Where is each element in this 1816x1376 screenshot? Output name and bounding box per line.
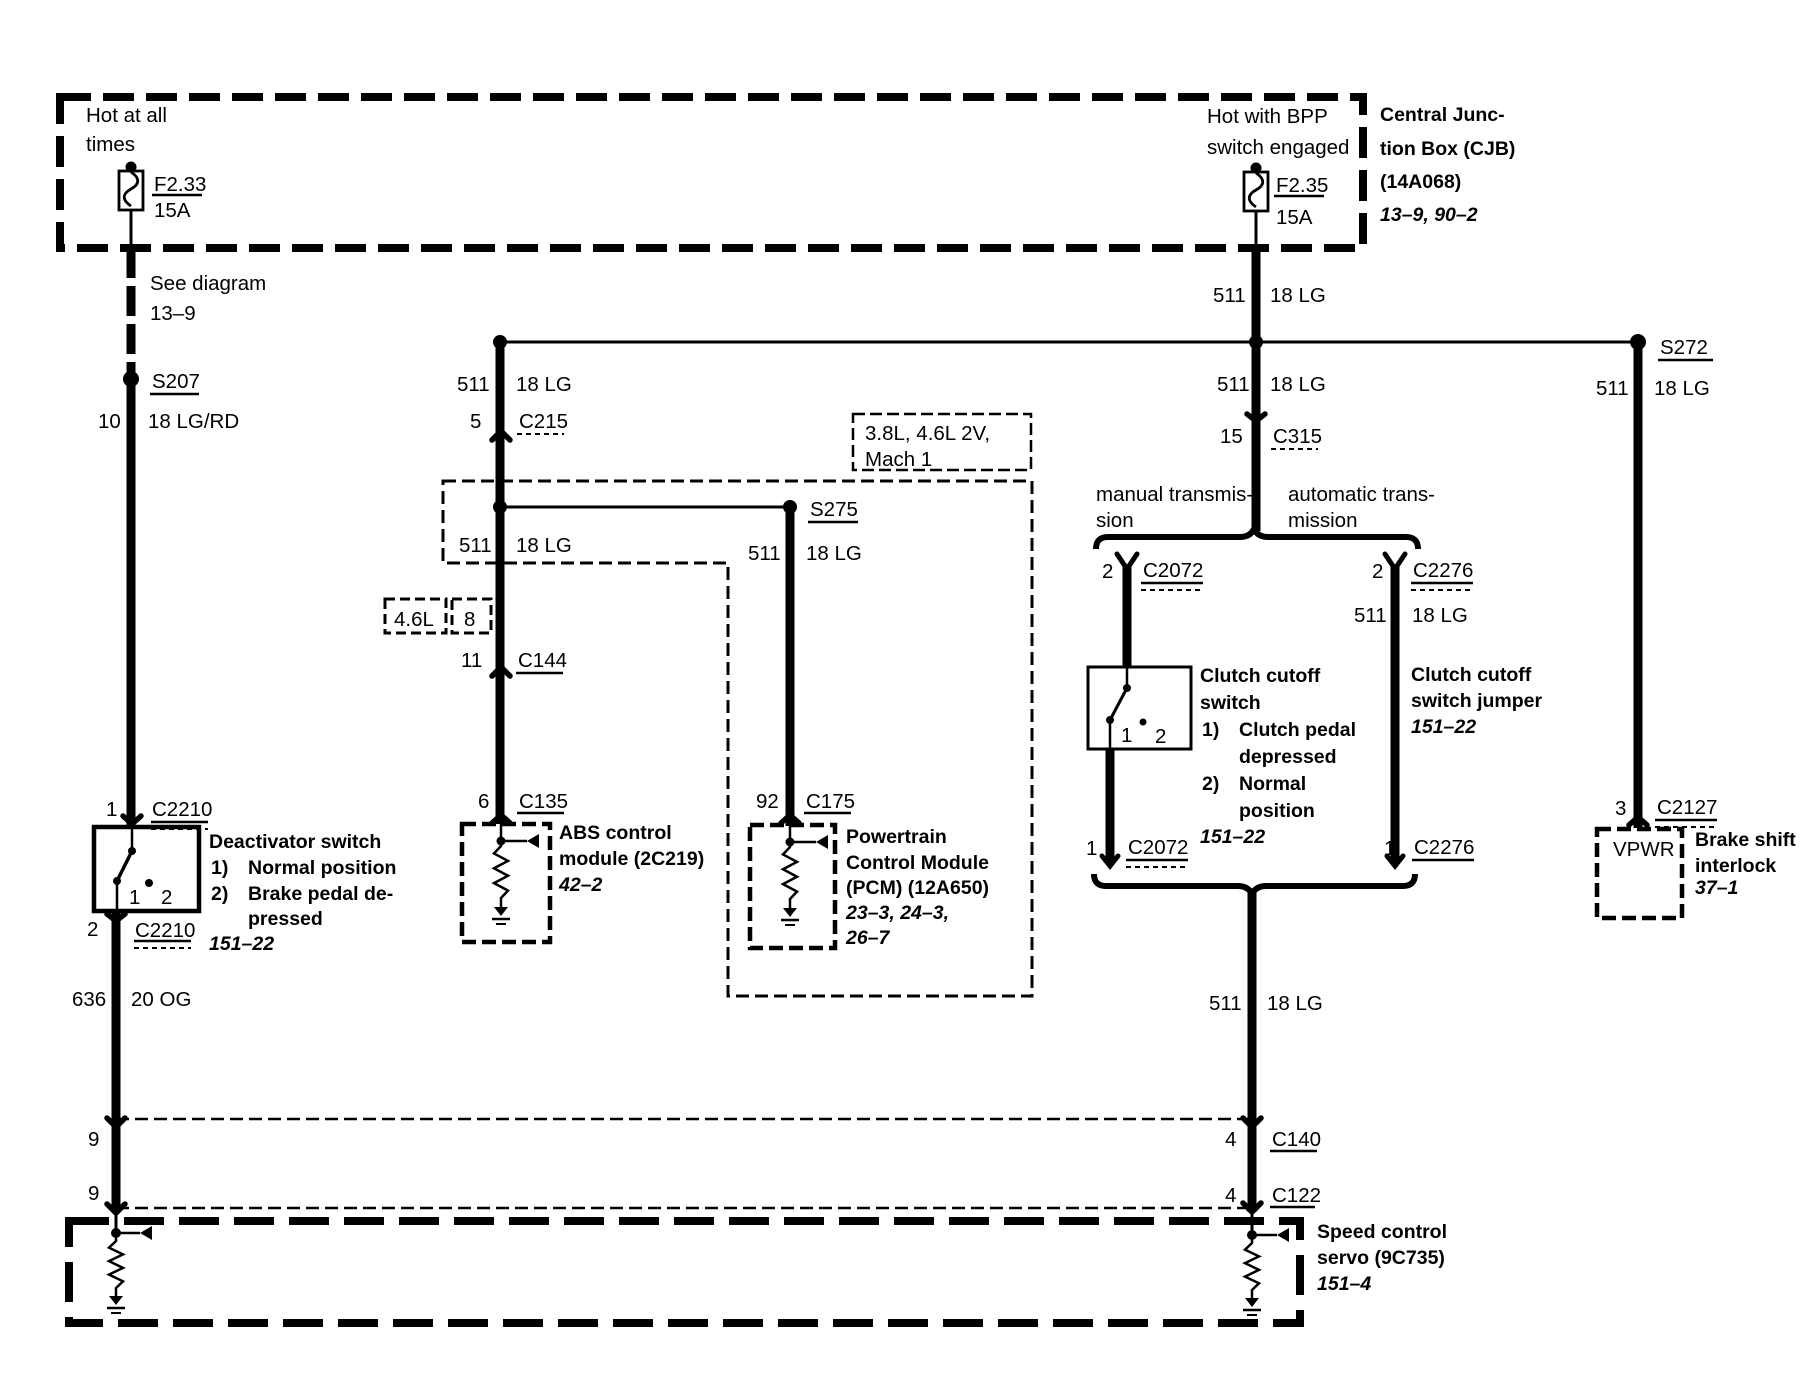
wire: circuit 511 18 LG down to speed control servo [1248, 890, 1257, 1212]
svg-text:1: 1 [1384, 837, 1395, 860]
deactivator switch position marker dot [145, 879, 153, 887]
svg-text:18 LG: 18 LG [1270, 284, 1326, 307]
svg-text:511: 511 [459, 534, 492, 557]
PCM input lead [789, 825, 792, 842]
servo coil right: ground [1245, 1298, 1259, 1307]
svg-text:times: times [86, 133, 135, 156]
wire: circuit 511 18 LG from S272 to brake shift interlock [1634, 342, 1643, 828]
svg-text:511: 511 [1596, 377, 1629, 400]
svg-text:8: 8 [464, 608, 475, 631]
svg-text:switch jumper: switch jumper [1411, 690, 1543, 712]
svg-text:636: 636 [72, 988, 106, 1011]
svg-text:9: 9 [88, 1128, 99, 1151]
splice S275 [783, 500, 797, 514]
PCM internal resistor to ground [786, 838, 795, 847]
svg-text:Mach 1: Mach 1 [865, 448, 932, 471]
svg-text:2: 2 [87, 918, 98, 941]
application enclosure (3.8L/4.6L region, thin dashed outline) [443, 481, 1032, 996]
svg-text:4: 4 [1225, 1128, 1236, 1151]
svg-text:4.6L: 4.6L [394, 608, 434, 631]
svg-text:C140: C140 [1272, 1128, 1321, 1151]
splice S207 [123, 371, 139, 387]
svg-text:Brake shift: Brake shift [1695, 829, 1796, 851]
engine application box 4.6L [385, 599, 446, 633]
svg-text:F2.35: F2.35 [1276, 174, 1328, 197]
svg-text:20 OG: 20 OG [131, 988, 191, 1011]
speed control servo dashed enclosure [69, 1221, 1300, 1323]
connector C2210 pin 1 (arrow into deactivator switch) [123, 816, 141, 824]
connector C2072 pin 1 (manual branch bottom) [1102, 856, 1118, 866]
engine application box 8 [452, 599, 491, 633]
svg-text:Deactivator switch: Deactivator switch [209, 831, 381, 853]
clutch cutoff switch [1088, 667, 1191, 749]
connector C2276 pin 2 (automatic branch top) [1385, 554, 1405, 569]
wire: clutch cutoff switch jumper, circuit 511 18 LG [1391, 565, 1400, 862]
wire: manual branch to clutch cutoff switch [1123, 565, 1132, 667]
svg-text:Clutch cutoff: Clutch cutoff [1411, 664, 1532, 686]
svg-text:1: 1 [106, 798, 117, 821]
svg-text:C215: C215 [519, 410, 568, 433]
svg-text:13–9: 13–9 [150, 302, 196, 325]
application box 3.8L, 4.6L 2V, Mach 1 [853, 414, 1031, 470]
svg-text:C175: C175 [806, 790, 855, 813]
svg-text:S275: S275 [810, 498, 858, 521]
svg-text:C135: C135 [519, 790, 568, 813]
servo coil right: resistor [1251, 1235, 1254, 1243]
svg-text:15A: 15A [154, 199, 191, 222]
servo coil left: resistor [115, 1233, 118, 1241]
ABS control module dashed box [462, 824, 550, 942]
wire: circuit 511 18 LG from F2.35 down to power bus node [1252, 248, 1261, 342]
svg-text:mission: mission [1288, 509, 1358, 532]
svg-text:1): 1) [211, 857, 228, 879]
svg-text:Hot with BPP: Hot with BPP [1207, 105, 1328, 128]
connector C2072 pin 2 (manual branch top) [1117, 554, 1137, 569]
svg-text:C2127: C2127 [1657, 796, 1717, 819]
svg-text:1: 1 [1086, 837, 1097, 860]
svg-text:3: 3 [1615, 797, 1626, 820]
svg-text:5: 5 [470, 410, 481, 433]
harness boundary line (lower, thin dashed) [116, 1207, 1254, 1210]
svg-text:18 LG: 18 LG [1412, 604, 1468, 627]
servo coil right: arrow to other circuit [1252, 1234, 1277, 1237]
svg-text:1: 1 [129, 886, 140, 909]
svg-text:C2210: C2210 [152, 798, 212, 821]
svg-text:37–1: 37–1 [1695, 877, 1738, 899]
servo coil left: wire entry [115, 1212, 118, 1233]
svg-text:S272: S272 [1660, 336, 1708, 359]
svg-text:10: 10 [98, 410, 121, 433]
node: bus to C215 branch [493, 335, 507, 349]
svg-text:2: 2 [1155, 725, 1166, 748]
servo coil left: ground [109, 1296, 123, 1305]
splice S275 node on branch [493, 500, 507, 514]
svg-text:511: 511 [1354, 604, 1387, 627]
svg-text:23–3, 24–3,: 23–3, 24–3, [845, 902, 949, 924]
svg-text:sion: sion [1096, 509, 1134, 532]
svg-text:15A: 15A [1276, 206, 1313, 229]
svg-text:42–2: 42–2 [558, 874, 603, 896]
servo coil right: node [1247, 1230, 1257, 1240]
svg-text:2): 2) [1202, 773, 1219, 795]
Central Junction Box (CJB) dashed enclosure [60, 97, 1363, 248]
svg-text:511: 511 [1213, 284, 1246, 307]
svg-text:switch: switch [1200, 692, 1261, 714]
ABS module input lead [500, 824, 503, 841]
fuse F2.33 [126, 162, 137, 173]
svg-text:2: 2 [161, 886, 172, 909]
svg-text:511: 511 [748, 542, 781, 565]
svg-text:92: 92 [756, 790, 779, 813]
svg-text:ABS control: ABS control [559, 822, 672, 844]
connector C122 pin 4 [1243, 1203, 1261, 1212]
svg-text:18 LG: 18 LG [1270, 373, 1326, 396]
svg-text:18 LG/RD: 18 LG/RD [148, 410, 239, 433]
transmission split over-brace [1096, 529, 1418, 549]
svg-text:pressed: pressed [248, 908, 323, 930]
node: bus junction at BPP feed [1249, 335, 1263, 349]
svg-text:15: 15 [1220, 425, 1243, 448]
wire: fuse F2.33 lead to CJB edge [130, 210, 133, 248]
servo coil left: node [111, 1228, 121, 1238]
svg-text:interlock: interlock [1695, 855, 1776, 877]
svg-text:Normal position: Normal position [248, 857, 396, 879]
svg-text:18 LG: 18 LG [1654, 377, 1710, 400]
svg-text:26–7: 26–7 [845, 927, 891, 949]
svg-text:18 LG: 18 LG [806, 542, 862, 565]
svg-text:Control Module: Control Module [846, 852, 989, 874]
svg-text:automatic trans-: automatic trans- [1288, 483, 1435, 506]
svg-text:9: 9 [88, 1182, 99, 1205]
splice S272 node [1630, 334, 1646, 350]
svg-text:tion Box (CJB): tion Box (CJB) [1380, 138, 1515, 160]
svg-text:18 LG: 18 LG [516, 534, 572, 557]
fuse F2.35 [1251, 163, 1262, 174]
svg-text:Clutch pedal: Clutch pedal [1239, 719, 1356, 741]
svg-text:511: 511 [1217, 373, 1250, 396]
clutch cutoff switch position marker dot [1140, 719, 1147, 726]
svg-text:C144: C144 [518, 649, 567, 672]
connector C2210 pin 2 (arrow below deactivator switch) [107, 914, 125, 921]
wire: S207 to deactivator switch, circuit 10 18 LG/RD [127, 383, 136, 826]
svg-text:VPWR: VPWR [1613, 838, 1675, 861]
wire: circuit 10 dashed segment below F2.33 (see diagram) [127, 248, 136, 374]
svg-text:151–22: 151–22 [1200, 826, 1265, 848]
svg-text:2): 2) [211, 883, 228, 905]
ABS module internal resistor to ground [497, 837, 506, 846]
svg-text:C2072: C2072 [1128, 836, 1188, 859]
svg-text:511: 511 [1209, 992, 1242, 1015]
svg-text:Brake pedal de-: Brake pedal de- [248, 883, 393, 905]
connector arrow at C140 boundary (left, pin 9) [107, 1118, 125, 1127]
svg-text:6: 6 [478, 790, 489, 813]
Powertrain Control Module dashed box [750, 825, 835, 948]
svg-text:C2210: C2210 [135, 919, 195, 942]
svg-text:11: 11 [461, 649, 482, 672]
wire: S275 branch circuit 511 18 LG down to C175 [786, 507, 795, 826]
svg-text:Central Junc-: Central Junc- [1380, 104, 1505, 126]
svg-text:13–9, 90–2: 13–9, 90–2 [1380, 204, 1478, 226]
svg-text:position: position [1239, 800, 1315, 822]
svg-text:4: 4 [1225, 1184, 1236, 1207]
power distribution bus wire (horizontal) [500, 341, 1638, 344]
harness boundary line (upper, thin dashed) [116, 1118, 1254, 1121]
wire: branch circuit 511 18 LG down to C215 [496, 342, 505, 824]
svg-text:C2276: C2276 [1413, 559, 1473, 582]
svg-text:151–4: 151–4 [1317, 1273, 1371, 1295]
servo coil right: wire entry [1251, 1212, 1254, 1235]
connector C2276 pin 1 (automatic branch bottom) [1387, 856, 1403, 866]
svg-text:manual transmis-: manual transmis- [1096, 483, 1253, 506]
svg-text:depressed: depressed [1239, 746, 1337, 768]
deactivator switch (brake pedal) [94, 827, 199, 911]
svg-text:F2.33: F2.33 [154, 173, 206, 196]
svg-text:S207: S207 [152, 370, 200, 393]
transmission merge under-brace [1094, 874, 1415, 894]
svg-text:servo (9C735): servo (9C735) [1317, 1247, 1445, 1269]
svg-text:switch engaged: switch engaged [1207, 136, 1349, 159]
svg-text:151–22: 151–22 [1411, 716, 1476, 738]
svg-text:module (2C219): module (2C219) [559, 848, 704, 870]
svg-text:C2276: C2276 [1414, 836, 1474, 859]
svg-text:511: 511 [457, 373, 490, 396]
svg-text:Hot at all: Hot at all [86, 104, 167, 127]
svg-text:3.8L, 4.6L 2V,: 3.8L, 4.6L 2V, [865, 422, 990, 445]
svg-text:151–22: 151–22 [209, 933, 274, 955]
svg-text:(PCM) (12A650): (PCM) (12A650) [846, 877, 989, 899]
svg-text:1: 1 [1121, 724, 1132, 747]
svg-text:2: 2 [1102, 560, 1113, 583]
wire: S275 tie line [500, 506, 790, 509]
svg-text:1): 1) [1202, 719, 1219, 741]
svg-text:C122: C122 [1272, 1184, 1321, 1207]
svg-text:C315: C315 [1273, 425, 1322, 448]
servo coil left: arrow to other circuit [116, 1232, 140, 1235]
svg-text:See diagram: See diagram [150, 272, 266, 295]
svg-text:Powertrain: Powertrain [846, 826, 947, 848]
wire: fuse F2.35 lead to CJB edge [1255, 211, 1258, 248]
wire: circuit 511 to transmission split [1252, 342, 1261, 531]
brake shift interlock dashed box with VPWR input [1597, 829, 1682, 918]
connector C2127 pin 3 [1629, 817, 1647, 825]
wire: circuit 636 20 OG to speed control servo [112, 911, 121, 1212]
svg-text:Clutch cutoff: Clutch cutoff [1200, 665, 1321, 687]
wire: clutch switch pin 1 down to C2072 [1106, 749, 1115, 862]
connector C140 pin 4 [1243, 1118, 1261, 1127]
svg-text:(14A068): (14A068) [1380, 171, 1461, 193]
svg-text:Normal: Normal [1239, 773, 1306, 795]
svg-text:18 LG: 18 LG [516, 373, 572, 396]
svg-text:2: 2 [1372, 560, 1383, 583]
svg-text:Speed control: Speed control [1317, 1221, 1447, 1243]
svg-text:C2072: C2072 [1143, 559, 1203, 582]
svg-text:18 LG: 18 LG [1267, 992, 1323, 1015]
